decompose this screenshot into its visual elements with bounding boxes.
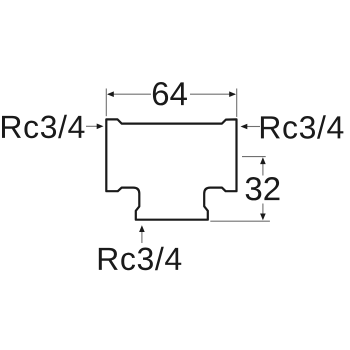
dim 64: dimension line left segment (108, 93, 151, 95)
leader line right (246, 126, 260, 128)
dim 64: left arrowhead (107, 91, 114, 97)
dim 64: right extension line (236, 89, 238, 117)
dim 32: value label "32" (246, 177, 262, 200)
dim 64: left extension line (105, 89, 107, 117)
leader line bottom (141, 231, 143, 244)
dim 32: centre-axis extension line (242, 156, 266, 158)
tee fitting body outline (106, 119, 236, 219)
dim 32: lower dimension line (262, 204, 264, 215)
label "Rc3/4" left (2, 116, 21, 138)
dim 32: upper arrowhead (points up) (260, 157, 266, 164)
label "Rc3/4" right (261, 116, 280, 138)
dim 32: upper dimension line (262, 163, 264, 176)
leader arrowhead bottom (points up at stub) (139, 225, 145, 232)
dim 64: right arrowhead (229, 91, 236, 97)
dim 32: lower arrowhead (points down) (260, 214, 266, 221)
label "Rc3/4" bottom (99, 248, 118, 270)
leader line left (86, 125, 98, 127)
dim 64: dimension line right segment (190, 93, 235, 95)
dim 64: value label "64" (153, 82, 168, 105)
dim 32: bottom extension line (210, 220, 270, 222)
leader arrowhead left (points right at body) (97, 124, 104, 130)
leader arrowhead right (points left at body) (241, 124, 248, 130)
